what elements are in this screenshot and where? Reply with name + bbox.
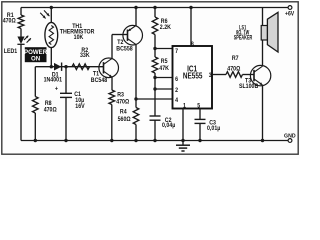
border frame xyxy=(2,2,298,154)
node R6 top xyxy=(153,6,156,9)
svg-text:R7: R7 xyxy=(232,56,239,62)
node thermistor-D1 junction xyxy=(50,65,53,68)
wire top +6V rail xyxy=(21,7,288,9)
svg-text:BC548: BC548 xyxy=(91,78,108,84)
wire thermistor bottom lead xyxy=(50,48,52,67)
resistor R6 xyxy=(152,8,172,49)
wire pin 5 xyxy=(199,109,201,120)
svg-text:6: 6 xyxy=(175,77,178,83)
wire pin 6 xyxy=(155,77,173,79)
node D1-C1 junction xyxy=(64,65,67,68)
wire T2 collector down xyxy=(135,45,137,99)
svg-text:470Ω: 470Ω xyxy=(3,18,16,24)
svg-text:ON: ON xyxy=(31,55,41,62)
resistor R8 xyxy=(33,67,58,141)
svg-text:T2: T2 xyxy=(117,39,123,45)
diode D1 xyxy=(44,63,63,84)
resistor R5 xyxy=(152,49,170,78)
svg-text:R3: R3 xyxy=(117,92,124,98)
svg-text:560Ω: 560Ω xyxy=(118,116,131,122)
svg-text:SL100B: SL100B xyxy=(239,84,258,90)
wire pin 4 xyxy=(136,98,173,100)
node R8 bottom xyxy=(34,139,37,142)
wire pin 7 xyxy=(155,48,173,50)
resistor R1 xyxy=(3,8,24,37)
wire pin 2 xyxy=(155,88,173,90)
wire bottom ground rail xyxy=(21,140,288,142)
svg-text:LED1: LED1 xyxy=(4,49,18,55)
capacitor C2 xyxy=(150,116,176,141)
wire T2 emitter up xyxy=(135,8,137,26)
svg-text:SPEAKER: SPEAKER xyxy=(234,35,253,42)
node pin4 junction xyxy=(134,97,137,100)
power-on badge xyxy=(24,47,48,62)
node R3 bottom xyxy=(110,139,113,142)
wire pin 3 xyxy=(212,74,226,76)
svg-text:NE555: NE555 xyxy=(183,72,203,81)
+6V terminal xyxy=(285,6,294,18)
node T2 emitter top xyxy=(134,6,137,9)
node thermistor top xyxy=(50,6,53,9)
resistor R7 xyxy=(226,56,243,77)
wire LED1 cathode down xyxy=(20,44,22,140)
wire R8 corner to T1 base xyxy=(35,66,103,68)
svg-text:R8: R8 xyxy=(45,100,52,106)
wire pin 8 xyxy=(190,8,192,47)
svg-text:+6V: +6V xyxy=(285,11,294,17)
transistor T1 xyxy=(91,58,119,84)
LED LED1 xyxy=(4,36,31,56)
svg-text:T1: T1 xyxy=(93,71,100,77)
svg-text:7: 7 xyxy=(175,49,178,55)
svg-text:470Ω: 470Ω xyxy=(227,66,240,72)
speaker LS1 xyxy=(234,8,278,53)
thermistor TH1 xyxy=(40,10,95,47)
svg-text:+: + xyxy=(55,86,59,92)
node R6-R5-pin7 junction xyxy=(153,47,156,50)
transistor T2 xyxy=(116,25,142,52)
svg-text:BC558: BC558 xyxy=(116,46,133,52)
wire T2 base xyxy=(112,34,128,36)
transistor T3 xyxy=(239,65,271,90)
svg-text:R4: R4 xyxy=(120,109,127,115)
svg-text:3: 3 xyxy=(209,73,212,79)
node C2 bottom xyxy=(153,139,156,142)
op-amp IC1 NE555 box xyxy=(173,41,213,109)
svg-text:470Ω: 470Ω xyxy=(44,107,57,113)
node R5-pin6 junction xyxy=(153,76,156,79)
capacitor C3 xyxy=(195,119,221,140)
svg-text:0,01µ: 0,01µ xyxy=(207,126,220,132)
capacitor C1 xyxy=(55,67,85,141)
wire pin 1 xyxy=(182,109,184,141)
wire T1 emitter down xyxy=(111,77,113,90)
wire T1 collector up xyxy=(111,35,113,59)
resistor R3 xyxy=(109,90,130,141)
node T3 emitter bottom xyxy=(261,139,264,142)
svg-text:GND: GND xyxy=(284,133,296,139)
node pin8 top xyxy=(189,6,192,9)
svg-text:2: 2 xyxy=(175,87,178,93)
GND terminal xyxy=(284,133,296,142)
node C3 bottom xyxy=(198,139,201,142)
wire thermistor top lead xyxy=(50,8,52,23)
svg-text:33K: 33K xyxy=(80,53,90,59)
wire R7 to T3 base xyxy=(243,74,255,76)
svg-text:2.2K: 2.2K xyxy=(160,24,172,30)
svg-text:R5: R5 xyxy=(161,59,168,65)
node R4 bottom xyxy=(134,139,137,142)
svg-text:16V: 16V xyxy=(75,103,85,109)
svg-text:10K: 10K xyxy=(74,35,84,41)
resistor R4 xyxy=(118,99,139,141)
wire pin2 node down to C2 xyxy=(154,78,156,117)
node C1 bottom xyxy=(64,139,67,142)
ground xyxy=(176,141,190,152)
wire T3 emitter down xyxy=(262,85,264,141)
svg-text:0,04µ: 0,04µ xyxy=(162,123,175,129)
node pin1 bottom xyxy=(181,139,184,142)
svg-text:470Ω: 470Ω xyxy=(116,99,129,105)
wire T3 collector up xyxy=(262,40,264,66)
resistor R2 xyxy=(72,47,90,69)
node pin2 junction xyxy=(153,87,156,90)
svg-text:1N4001: 1N4001 xyxy=(44,77,63,83)
svg-text:47K: 47K xyxy=(159,66,169,72)
